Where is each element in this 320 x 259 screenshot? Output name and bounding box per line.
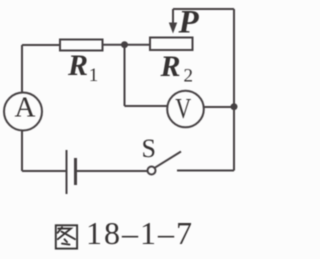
wire R1 to junction to R2 [103, 44, 151, 46]
svg-text:18–1–7: 18–1–7 [86, 215, 194, 251]
ammeter A circle [4, 93, 42, 131]
wire bottom left [22, 170, 67, 172]
svg-text:1: 1 [89, 65, 99, 86]
svg-text:R: R [160, 50, 181, 83]
battery long plate [66, 150, 68, 194]
wire bottom right [177, 170, 234, 172]
caption glyph 图 [56, 225, 77, 248]
voltmeter V circle [167, 91, 204, 128]
rheostat R2 [150, 38, 193, 51]
wire left vertical lower [21, 131, 23, 172]
wire bottom middle [76, 170, 148, 172]
wire voltmeter branch horizontal left [125, 105, 169, 107]
wire left vertical upper [21, 45, 23, 93]
svg-text:S: S [142, 134, 156, 163]
wire voltmeter to right node [204, 106, 235, 108]
svg-text:2: 2 [184, 66, 194, 87]
svg-text:R: R [67, 49, 88, 82]
node junction dot right [231, 103, 238, 110]
battery short plate [74, 158, 77, 185]
wire right vertical [233, 9, 235, 171]
wire top right [173, 8, 234, 10]
node junction dot left [121, 41, 128, 48]
switch lever [155, 152, 181, 168]
svg-text:V: V [175, 92, 191, 125]
resistor R1 [60, 40, 103, 51]
slider arrow P shaft [172, 9, 174, 25]
wire top-left horizontal [22, 44, 60, 46]
svg-text:A: A [15, 92, 36, 124]
slider arrowhead [169, 23, 177, 34]
switch S pivot circle [148, 167, 156, 175]
wire voltmeter branch vertical [124, 45, 126, 106]
